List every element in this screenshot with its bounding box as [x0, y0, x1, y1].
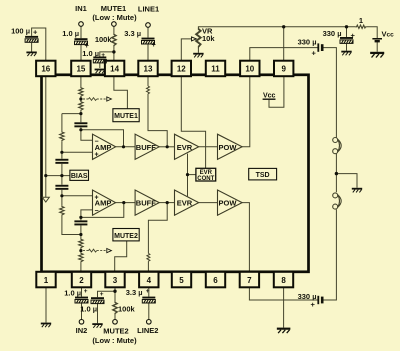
svg-text:EVR: EVR [177, 199, 193, 208]
capacitor C13 filter lower [55, 185, 68, 190]
svg-text:POW: POW [219, 199, 238, 208]
pin 10 [240, 61, 259, 76]
ground under battery [370, 52, 384, 58]
op-amp AMP2 [93, 190, 116, 215]
wire pin 1 to ground [45, 288, 47, 323]
wire AMP1 noninv input [62, 151, 93, 153]
wire bias rail [46, 175, 70, 177]
terminal LINE2 [147, 320, 152, 325]
op-amp POW1 [218, 134, 243, 159]
terminal LINE1 [146, 23, 151, 28]
speaker SP1 [333, 138, 342, 154]
wire left filter column [61, 114, 63, 132]
node bias mid [60, 174, 63, 177]
node speaker tap [335, 172, 338, 175]
svg-text:330 μ: 330 μ [323, 29, 342, 38]
op-amp EVR1 [175, 134, 199, 159]
wire AMP2 feedback [81, 203, 124, 218]
resistor R5 input upper b [79, 101, 83, 111]
capacitor C7 330u output bottom (horizontal) [317, 296, 323, 304]
resistor R7 filter lower [60, 206, 64, 216]
svg-text:100 μ: 100 μ [11, 27, 30, 36]
svg-text:−: − [94, 208, 98, 215]
node bias left [44, 174, 47, 177]
wire mute1 node to 1.0u cap [100, 52, 114, 57]
wire 1.0u cap2 to ground [97, 304, 99, 323]
svg-text:Vcc: Vcc [263, 93, 276, 100]
pin 16 [36, 61, 55, 76]
wire [80, 226, 82, 239]
wire [147, 44, 149, 61]
wire rail to 330u cap top right [346, 27, 348, 37]
svg-text:13: 13 [144, 65, 153, 74]
wire BUFF1 out to EVR1 [159, 146, 174, 148]
wire [147, 261, 149, 271]
Vcc symbol internal [263, 93, 276, 100]
VR wiper arrow [192, 37, 197, 41]
svg-text:3.3 μ: 3.3 μ [126, 288, 143, 297]
svg-text:TSD: TSD [256, 172, 270, 179]
op-amp BUFF2 [135, 190, 159, 215]
wire EVR control column [187, 154, 189, 197]
wire EVR1 out to POW1 [199, 146, 218, 148]
node buff2 out [166, 201, 169, 204]
wire pin 8 to ground [283, 288, 285, 328]
resistor R11 pin4 [147, 253, 150, 261]
wire 1-ohm to Vcc battery [367, 27, 377, 38]
node amp2 out [122, 201, 125, 204]
pin 11 [206, 61, 225, 76]
svg-text:2: 2 [79, 276, 84, 285]
interior wires [46, 76, 284, 271]
wire AMP2 out to BUFF2 [116, 202, 136, 204]
wire BUFF2 out to EVR2 [159, 202, 174, 204]
wire bottom 330u cap to pin 7 [249, 288, 317, 300]
pin 14 [105, 61, 124, 76]
op-amp POW2 [218, 190, 243, 215]
svg-text:+: + [33, 28, 38, 37]
svg-text:+: + [100, 291, 104, 298]
node amp1+ [60, 151, 63, 154]
resistor R1 100k [112, 34, 116, 47]
svg-text:8: 8 [281, 276, 286, 285]
wire EVR2 out to POW2 [199, 202, 218, 204]
capacitor C14 inline lower [74, 220, 87, 225]
ground under C5 [341, 51, 351, 56]
speaker SP2 [333, 193, 342, 209]
svg-text:7: 7 [247, 276, 252, 285]
wire pin15 input column [80, 76, 82, 87]
terminal IN2 [79, 320, 84, 325]
capacitor C9 1.0u mute2 [91, 297, 104, 303]
node 113 [79, 112, 82, 115]
svg-text:5: 5 [179, 276, 184, 285]
wire pin10 up and right to 330u out cap [250, 48, 318, 61]
node rail pin9 [282, 25, 285, 28]
svg-text:+: + [311, 300, 316, 309]
svg-text:11: 11 [211, 65, 220, 74]
pin 12 [172, 61, 191, 76]
terminal IN1 [79, 22, 84, 27]
svg-text:+: + [101, 52, 105, 59]
wire mute2 node to 1.0u cap [98, 291, 116, 297]
capacitor C3 1.0u mute1 [93, 57, 106, 63]
node mute2 tap ext [113, 290, 116, 293]
op-amp BUFF1 [135, 134, 159, 159]
svg-text:1: 1 [44, 276, 49, 285]
svg-text:9: 9 [281, 65, 286, 74]
node rail 330u [345, 25, 348, 28]
capacitor C2 1.0u IN1 [75, 38, 88, 44]
wire 1.0u cap to ground [99, 63, 101, 68]
pin 3 [105, 272, 124, 288]
wire [62, 216, 81, 235]
wire POW2 out down to pin 7 [242, 203, 249, 272]
svg-text:16: 16 [41, 65, 50, 74]
pin 4 [139, 272, 158, 288]
svg-text:10k: 10k [202, 34, 215, 43]
wire battery to ground [376, 42, 378, 52]
node evr control [186, 173, 189, 176]
wire [80, 45, 82, 61]
svg-text:POW: POW [219, 143, 238, 152]
resistor R4 input upper a [79, 87, 83, 97]
node mute2 tap int [79, 249, 82, 252]
svg-text:100k: 100k [95, 35, 113, 44]
wire pin14 to MUTE1 box [114, 76, 128, 108]
box MUTE1 [113, 109, 139, 122]
svg-text:MUTE1: MUTE1 [101, 4, 126, 13]
svg-text:330 μ: 330 μ [298, 37, 317, 46]
wire node113 link [62, 113, 81, 115]
wire pin 3 down to 100k to MUTE2 [114, 288, 116, 302]
pin 5 [172, 272, 191, 288]
resistor VR 10k [196, 28, 200, 49]
node amp1 out [122, 145, 125, 148]
svg-text:Vcc: Vcc [382, 30, 395, 39]
ground under C1 [26, 52, 36, 57]
ground under C3 [95, 69, 105, 74]
box MUTE2 [113, 229, 139, 241]
mute1 control arrow [83, 97, 111, 101]
pin boxes top row [36, 61, 293, 288]
svg-text:MUTE2: MUTE2 [103, 327, 128, 336]
svg-text:14: 14 [110, 65, 119, 74]
wire pin12 to VR wiper [181, 39, 191, 61]
wire [80, 249, 82, 253]
svg-text:LINE1: LINE1 [138, 4, 159, 13]
wire [61, 141, 63, 158]
wire between resistors [80, 97, 82, 101]
ground under VR [193, 53, 203, 58]
wire Vcc symbol to pin 9 [269, 76, 284, 107]
svg-text:MUTE2: MUTE2 [114, 233, 138, 240]
wire pin 4 to cap to LINE2 [148, 288, 150, 297]
wire BUFF2 out down to pin4 resistor [148, 203, 167, 254]
wire IN1 terminal to cap to pin 15 [80, 26, 82, 38]
wire [114, 315, 116, 320]
pin 13 [138, 61, 157, 76]
svg-text:LINE2: LINE2 [137, 326, 158, 335]
mute2 control arrow [83, 249, 111, 253]
node buff1 out [166, 145, 169, 148]
ground speaker tap [352, 188, 362, 193]
svg-text:IN1: IN1 [75, 4, 87, 13]
node 234 [79, 233, 82, 236]
wire [81, 303, 83, 319]
op-amp EVR2 [175, 190, 199, 215]
svg-text:+: + [351, 31, 356, 40]
wire EVR CONT left to control column [188, 174, 196, 176]
svg-text:4: 4 [147, 276, 152, 285]
wire speaker2 down to bottom cap line [323, 209, 336, 300]
wire pin12 to EVR CONT [181, 76, 205, 168]
box BIAS [70, 170, 89, 180]
capacitor C6 330u output top (horizontal) [317, 43, 323, 51]
svg-text:15: 15 [76, 65, 85, 74]
svg-text:BIAS: BIAS [71, 173, 88, 180]
pin 1 [36, 272, 55, 288]
wire AMP2 noninv input [62, 195, 93, 197]
ground under C9 [92, 323, 102, 328]
signal ground node [42, 197, 49, 202]
wire LINE1 terminal to cap to pin 13 [147, 27, 149, 37]
battery Vcc [372, 38, 382, 42]
svg-text:10: 10 [245, 65, 254, 74]
resistor R10 pin13 [147, 86, 150, 94]
ground pin 1 [41, 323, 51, 328]
wire AMP1 out to BUFF1 [116, 146, 136, 148]
wire AMP1 feedback [81, 130, 124, 147]
pin numbers top [41, 65, 286, 285]
terminal MUTE1 [112, 22, 117, 27]
svg-text:1.0 μ: 1.0 μ [62, 29, 79, 38]
wire C1 to ground [31, 43, 33, 52]
svg-text:12: 12 [177, 65, 186, 74]
node amp2+ [60, 194, 63, 197]
node feedback1 [79, 128, 82, 131]
svg-text:IN2: IN2 [76, 326, 88, 335]
capacitor C11 inline upper [74, 122, 87, 127]
svg-text:3: 3 [113, 276, 118, 285]
svg-text:1.0 μ: 1.0 μ [82, 49, 99, 58]
capacitor C12 filter upper [55, 159, 68, 164]
wire AMP2 inv input [81, 210, 93, 218]
svg-text:1.0 μ: 1.0 μ [64, 288, 81, 297]
capacitor C8 1.0u IN2 [75, 297, 88, 303]
pin 2 [72, 272, 91, 288]
svg-text:100k: 100k [118, 305, 136, 314]
wire pin16 column to signal ground [45, 76, 47, 197]
svg-text:3.3 μ: 3.3 μ [124, 29, 141, 38]
svg-text:+: + [84, 288, 88, 295]
ground pin 8 [277, 328, 291, 334]
svg-text:+: + [146, 288, 150, 295]
wire VR bottom to ground [197, 49, 199, 53]
svg-text:+: + [152, 40, 157, 49]
wire [80, 263, 82, 272]
svg-text:1: 1 [359, 16, 363, 25]
capacitor C1 100u [25, 36, 38, 42]
pin 15 [71, 61, 90, 76]
wire rail down to pin 9 [283, 27, 285, 61]
wire resistor to node [80, 111, 82, 122]
node feedback2 [79, 216, 82, 219]
op-amp AMP1 [93, 134, 116, 159]
wire pin2 column [80, 217, 82, 220]
box EVR CONT [196, 168, 216, 182]
svg-text:(Low : Mute): (Low : Mute) [92, 13, 137, 22]
wire cap to feedback node [80, 127, 82, 129]
pin 7 [240, 272, 259, 288]
capacitor C4 3.3u LINE1 [142, 38, 155, 44]
svg-text:BUFF: BUFF [136, 199, 156, 208]
resistor R9 input lower b [79, 253, 83, 263]
wire [148, 303, 150, 319]
wire POW1 out up to pin 10 [242, 76, 250, 146]
wire [148, 94, 167, 147]
wire 330u cap to ground [346, 44, 348, 51]
IC body U1 [42, 75, 309, 272]
resistor R6 filter upper [60, 131, 64, 141]
resistor R2 1 ohm [355, 25, 367, 28]
pin 8 [274, 272, 293, 288]
wire [61, 164, 63, 185]
svg-text:EVR: EVR [177, 143, 193, 152]
pin 9 [274, 61, 293, 76]
svg-text:+: + [94, 151, 98, 158]
wire speaker1 to center tap [335, 154, 337, 193]
node mute1 tap [112, 50, 115, 53]
resistor R8 input lower a [79, 239, 83, 249]
svg-text:CONT: CONT [197, 176, 214, 182]
node in col upper [79, 97, 82, 100]
svg-text:−: − [94, 138, 98, 145]
svg-text:6: 6 [213, 276, 218, 285]
resistor R3 100k bottom [113, 302, 117, 315]
box TSD [249, 168, 277, 180]
svg-text:(Low : Mute): (Low : Mute) [92, 336, 137, 345]
capacitor C10 3.3u LINE2 [142, 297, 155, 303]
wire [113, 47, 115, 61]
capacitor C5 330u top right [340, 37, 353, 43]
terminal MUTE2 [113, 320, 118, 325]
wire pin 2 to cap to IN2 [81, 288, 83, 297]
svg-text:MUTE1: MUTE1 [114, 113, 138, 120]
wire [61, 190, 63, 206]
wire MUTE1 terminal to 100k to node to pin 14 [113, 26, 115, 33]
wire feedback node to AMP1 inv input [81, 130, 93, 141]
wire pin13 col resistor to BUFF1 out [147, 76, 149, 86]
svg-text:+: + [94, 194, 98, 201]
wire center tap stub to ground [336, 174, 357, 188]
pin 6 [206, 272, 225, 288]
svg-text:1.0 μ: 1.0 μ [80, 305, 97, 314]
svg-text:BUFF: BUFF [136, 143, 156, 152]
top supply rail [198, 26, 355, 29]
wire pin16 bypass: 100u cap top to pin 16 [32, 28, 46, 61]
svg-text:+: + [312, 49, 317, 58]
wire MUTE2 box to pin 3 [115, 240, 127, 271]
wire out cap to right column [323, 48, 336, 138]
